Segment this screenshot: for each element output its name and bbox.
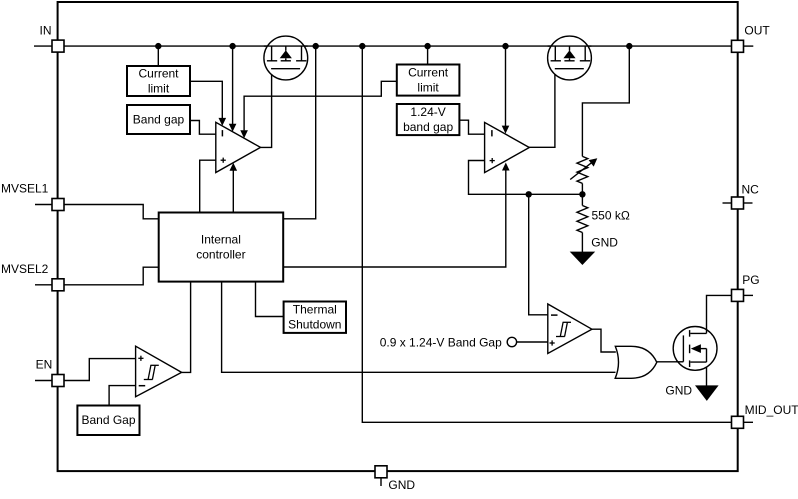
node: 0.9 x 1.24-V Band Gap terminal [507,337,516,346]
svg-text:OUT: OUT [744,24,770,38]
arrowhead: mid rail sense into error amp 2 [502,126,510,134]
wire: stub rail to Current limit 2 [427,46,429,64]
wire: mid rail to MID_OUT pin [362,46,731,422]
wire: EN comparator output to controller [182,282,191,373]
svg-text:GND: GND [591,235,618,249]
resistor 550 kOhm [581,194,583,205]
pin GND [375,466,387,478]
svg-text:NC: NC [742,183,760,197]
svg-text:limit: limit [417,81,439,95]
svg-text:Thermal: Thermal [293,303,337,317]
arrowhead: current limit 2 line into error amp 1 [240,130,248,138]
PMOS pass transistor Q2 [548,36,592,80]
wire: controller to Thermal Shutdown [256,282,284,317]
block: Band Gap (EN comparator reference) [77,406,139,436]
wire: OUT rail tap down to variable resistor [582,46,629,156]
arrowhead: IN sense into error amp 1 [229,124,237,132]
ground symbol below NMOS [695,385,719,401]
junction: IN rail sense tap [229,43,235,49]
wire: 1.24-V band gap to error amp 2 inverting input [459,120,484,134]
wire: controller to OR gate lower input [222,282,616,373]
variable resistor (adjustable feedback divider top) [577,156,588,183]
wire: error amp 2 output to PMOS Q2 gate [529,69,555,148]
NMOS open-drain transistor (PG output) [673,327,717,371]
wire: EN pin to EN comparator noninverting input [64,359,136,381]
wire: feedback node to PG comparator inverting input [529,194,548,314]
svg-text:limit: limit [148,82,170,96]
svg-text:GND: GND [388,478,415,492]
svg-text:0.9 x 1.24-V Band Gap: 0.9 x 1.24-V Band Gap [380,336,502,350]
svg-text:1.24-V: 1.24-V [410,105,445,119]
wire: Current limit 1 output to error amp 1 [190,81,222,118]
svg-text:GND: GND [665,384,692,398]
junction: OUT rail feedback tap [626,43,632,49]
wire: feedback node to error amp 2 noninverting input [469,161,583,195]
svg-text:MVSEL1: MVSEL1 [1,182,49,196]
svg-text:EN: EN [36,357,53,371]
pin MVSEL1 [52,199,64,211]
wire: Band gap to error amp 1 inverting input [190,121,216,135]
wire: MVSEL1 pin external lead [35,204,52,206]
svg-text:band gap: band gap [403,120,453,134]
block: Thermal Shutdown [284,302,346,333]
wire: PG pin to NMOS drain [707,295,732,333]
PG comparator (Schmitt) [548,304,592,354]
wire: top rail IN to OUT [58,45,738,47]
wire: MVSEL1 pin to controller [64,205,159,219]
wire: PG pin external lead [744,294,754,296]
svg-text:Internal: Internal [201,233,241,247]
wire: IN rail sense into error amp 1 [232,46,234,124]
op-amp error amplifier 2 [485,122,530,172]
junction: feedback to PG comparator [526,191,532,197]
wire: variable resistor to feedback node [581,183,583,194]
wire: mid rail sense into error amp 2 [505,46,507,126]
wire: PG comparator output to OR gate [592,329,616,352]
wire: IN pin external lead [34,45,52,47]
wire: 0.9 band gap terminal to PG comparator [517,341,548,343]
wire: MID_OUT pin external lead [744,421,754,423]
wire: EN pin external lead [35,380,52,382]
svg-text:controller: controller [196,248,245,262]
wire: Band Gap to EN comparator inverting input [109,386,136,406]
svg-text:Band gap: Band gap [133,113,185,127]
pin EN [52,375,64,387]
block: Current limit 1 [127,66,190,96]
junction: mid rail to current limit 2 [424,43,430,49]
pin MID_OUT [732,416,744,428]
junction: mid rail to controller [313,43,319,49]
pin OUT [732,40,744,52]
block: Band gap (error amp 1 reference) [127,105,190,134]
block: 1.24-V band gap reference [397,104,460,135]
wire: controller to error amp 1 bottom arrow [232,170,234,213]
wire: MVSEL2 pin external lead [35,284,52,286]
svg-text:Current: Current [138,67,179,81]
wire: error amp 1 output to PMOS Q1 gate [261,69,272,148]
arrowhead: variable resistor adjust arrow [589,158,598,166]
junction: mid rail to MID_OUT [359,43,365,49]
svg-text:MID_OUT: MID_OUT [745,403,798,417]
OR gate [615,346,657,378]
svg-text:550 kΩ: 550 kΩ [592,209,630,223]
wire: GND pin external lead [380,479,382,487]
wire: NC pin external lead [744,202,753,204]
junction: feedback divider node [579,191,585,197]
arrowhead: controller into error amp 2 bottom [502,163,510,171]
op-amp error amplifier 1 [216,122,261,172]
PMOS pass transistor Q1 [264,36,308,80]
EN comparator (Schmitt) [136,346,182,397]
wire: controller to error amp 2 bottom arrow [283,170,506,267]
junction: mid rail sense tap [502,43,508,49]
svg-text:Band Gap: Band Gap [81,413,135,427]
wire: NC pin internal stub [723,202,732,204]
pin IN [52,40,64,52]
svg-text:Current: Current [408,66,449,80]
svg-text:IN: IN [40,24,52,38]
arrowhead: controller into error amp 1 bottom [230,163,238,171]
block: Internal controller [159,213,284,282]
arrowhead: current limit 1 into error amp 1 [219,118,227,126]
wire: OR gate output to NMOS gate [657,361,684,363]
svg-text:Shutdown: Shutdown [288,318,341,332]
block: Current limit 2 [397,65,460,96]
pin PG [732,289,744,301]
svg-text:MVSEL2: MVSEL2 [1,262,49,276]
pin MVSEL2 [52,279,64,291]
wire: Current limit 2 output to error amp 1 [244,81,397,130]
wire: mid rail to internal controller [283,46,316,219]
wire: stub rail to Current limit 1 [157,46,159,66]
wire: NMOS source to ground [706,362,708,386]
wire: MVSEL2 pin to controller [64,267,159,285]
svg-text:PG: PG [742,273,759,287]
wire: OUT pin external lead [744,45,754,47]
ground symbol below 550k [570,252,596,265]
junction: IN rail to current limit 1 [155,43,161,49]
wire: controller to error amp 1 noninverting input [200,160,216,212]
pin NC [732,197,744,209]
